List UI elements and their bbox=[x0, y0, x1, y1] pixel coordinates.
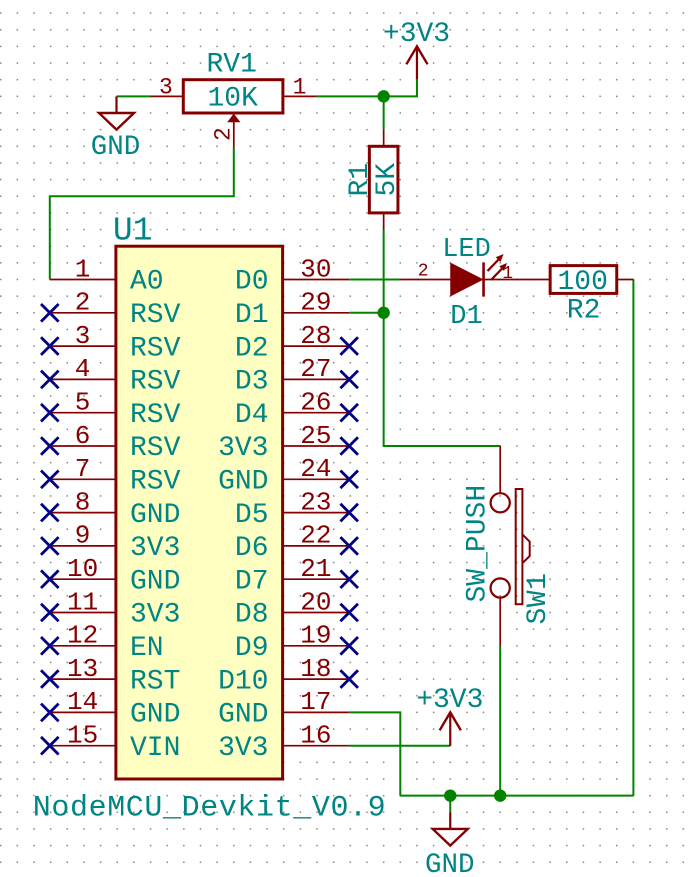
svg-text:3V3: 3V3 bbox=[218, 433, 268, 464]
LED D1 emission arrows bbox=[488, 257, 502, 272]
wire GND rail bbox=[400, 795, 633, 797]
RV1 wiper arrow bbox=[227, 114, 240, 123]
junction RV1-R1 node bbox=[377, 90, 389, 102]
no-connect pin 4 bbox=[41, 371, 59, 389]
svg-text:RSV: RSV bbox=[130, 433, 181, 464]
IC U1 body bbox=[116, 246, 283, 779]
svg-text:29: 29 bbox=[300, 288, 331, 318]
svg-text:27: 27 bbox=[300, 354, 331, 384]
svg-text:NodeMCU_Devkit_V0.9: NodeMCU_Devkit_V0.9 bbox=[33, 792, 386, 826]
pin 9 line bbox=[50, 545, 116, 547]
svg-text:1: 1 bbox=[75, 254, 91, 284]
svg-text:D8: D8 bbox=[235, 600, 269, 631]
switch SW1 button bump bbox=[522, 534, 529, 563]
wire rail to GND symbol bbox=[449, 796, 451, 813]
no-connect pin 10 bbox=[41, 570, 59, 588]
pin 6 line bbox=[50, 445, 116, 447]
no-connect pin 21 bbox=[340, 570, 358, 588]
wire RV1 pin3 to GND bbox=[117, 95, 151, 97]
svg-text:26: 26 bbox=[300, 388, 331, 418]
svg-text:4: 4 bbox=[75, 354, 91, 384]
no-connect pin 25 bbox=[340, 437, 358, 455]
svg-text:9: 9 bbox=[75, 521, 91, 551]
pin 17 line bbox=[283, 711, 350, 713]
switch SW1 bottom contact bbox=[491, 578, 510, 597]
svg-text:3V3: 3V3 bbox=[130, 533, 180, 564]
no-connect pin 19 bbox=[340, 637, 358, 655]
svg-text:D3: D3 bbox=[235, 367, 269, 398]
pin 18 line bbox=[283, 678, 350, 680]
wire R2 to rail bbox=[632, 280, 634, 796]
pin 8 line bbox=[50, 512, 116, 514]
pin 12 line bbox=[50, 645, 116, 647]
svg-text:3V3: 3V3 bbox=[130, 600, 180, 631]
svg-text:D4: D4 bbox=[235, 400, 269, 431]
svg-text:D1: D1 bbox=[450, 302, 482, 332]
svg-text:D1: D1 bbox=[235, 300, 269, 331]
LED D1 cathode pin bbox=[484, 279, 551, 281]
svg-text:19: 19 bbox=[300, 621, 331, 651]
svg-text:3: 3 bbox=[159, 75, 173, 101]
svg-text:30: 30 bbox=[300, 254, 331, 284]
pin 23 line bbox=[283, 512, 350, 514]
wire U1 pin16 to +3V3 bbox=[349, 745, 450, 747]
svg-text:10K: 10K bbox=[207, 84, 258, 115]
svg-text:D6: D6 bbox=[235, 533, 269, 564]
GND symbol top bbox=[115, 96, 117, 113]
wire SW1 to GND rail bbox=[499, 646, 501, 796]
no-connect pin 22 bbox=[340, 537, 358, 555]
svg-text:D9: D9 bbox=[235, 633, 269, 664]
svg-text:17: 17 bbox=[300, 687, 331, 717]
RV1 pin 1 line bbox=[283, 95, 317, 97]
pin 21 line bbox=[283, 578, 350, 580]
pin 19 line bbox=[283, 645, 350, 647]
wire R1 to SW1 bbox=[384, 230, 501, 446]
RV1 pin 3 line bbox=[151, 95, 184, 97]
svg-text:VIN: VIN bbox=[130, 733, 180, 764]
pin 5 line bbox=[50, 412, 116, 414]
pin 27 line bbox=[283, 378, 350, 380]
no-connect pin 11 bbox=[41, 604, 59, 622]
resistor R2 body bbox=[550, 266, 617, 294]
svg-text:GND: GND bbox=[130, 566, 180, 597]
switch SW1 top pin bbox=[499, 446, 501, 493]
pin 10 line bbox=[50, 578, 116, 580]
no-connect pin 27 bbox=[340, 371, 358, 389]
resistor R1 body bbox=[369, 146, 398, 213]
pin 14 line bbox=[50, 711, 116, 713]
svg-text:13: 13 bbox=[67, 654, 98, 684]
GND symbol bottom bbox=[449, 812, 451, 829]
no-connect pin 8 bbox=[41, 504, 59, 522]
svg-text:11: 11 bbox=[67, 587, 98, 617]
pin 1 line bbox=[50, 279, 116, 281]
pin 7 line bbox=[50, 478, 116, 480]
svg-text:RST: RST bbox=[130, 666, 180, 697]
svg-text:25: 25 bbox=[300, 421, 331, 451]
wire D1 pin29 bbox=[349, 312, 383, 314]
svg-text:+3V3: +3V3 bbox=[416, 685, 483, 716]
svg-text:8: 8 bbox=[75, 487, 91, 517]
wire junction to R1 bbox=[383, 96, 385, 129]
svg-text:RSV: RSV bbox=[130, 400, 181, 431]
svg-text:D2: D2 bbox=[235, 333, 269, 364]
no-connect pin 3 bbox=[41, 337, 59, 355]
no-connect pin 7 bbox=[41, 471, 59, 489]
R2 right pin bbox=[617, 279, 634, 281]
svg-text:14: 14 bbox=[67, 687, 98, 717]
svg-text:3: 3 bbox=[75, 321, 91, 351]
pin 24 line bbox=[283, 478, 350, 480]
pin 16 line bbox=[283, 745, 350, 747]
svg-text:RSV: RSV bbox=[130, 333, 181, 364]
svg-text:GND: GND bbox=[130, 700, 180, 731]
svg-text:RSV: RSV bbox=[130, 367, 181, 398]
switch SW1 bottom pin bbox=[499, 598, 501, 646]
no-connect pin 9 bbox=[41, 537, 59, 555]
svg-text:16: 16 bbox=[300, 721, 331, 751]
no-connect pin 2 bbox=[41, 304, 59, 322]
pin 13 line bbox=[50, 678, 116, 680]
svg-text:D5: D5 bbox=[235, 500, 269, 531]
svg-text:21: 21 bbox=[300, 554, 331, 584]
svg-text:6: 6 bbox=[75, 421, 91, 451]
svg-text:28: 28 bbox=[300, 321, 331, 351]
no-connect pin 5 bbox=[41, 404, 59, 422]
svg-text:GND: GND bbox=[130, 500, 180, 531]
svg-text:+3V3: +3V3 bbox=[383, 19, 450, 50]
svg-text:1: 1 bbox=[502, 264, 513, 284]
junction R1-D1-SW node bbox=[377, 307, 389, 319]
pin 4 line bbox=[50, 378, 116, 380]
pin 25 line bbox=[283, 445, 350, 447]
svg-text:A0: A0 bbox=[130, 267, 164, 298]
+3V3 symbol bottom bbox=[449, 712, 451, 745]
no-connect pin 20 bbox=[340, 604, 358, 622]
LED D1 cathode bar bbox=[482, 263, 485, 297]
+3V3 symbol top bbox=[416, 46, 418, 79]
svg-text:24: 24 bbox=[300, 454, 331, 484]
no-connect pin 13 bbox=[41, 670, 59, 688]
svg-text:EN: EN bbox=[130, 633, 164, 664]
svg-text:7: 7 bbox=[75, 454, 91, 484]
pin 26 line bbox=[283, 412, 350, 414]
junction rail SW1 bbox=[494, 789, 506, 801]
svg-text:18: 18 bbox=[300, 654, 331, 684]
svg-text:100: 100 bbox=[557, 267, 607, 298]
svg-text:SW_PUSH: SW_PUSH bbox=[463, 485, 494, 603]
wire RV1 wiper to U1 pin1 bbox=[50, 147, 234, 280]
potentiometer RV1 body bbox=[183, 80, 283, 113]
pin 28 line bbox=[283, 345, 350, 347]
svg-text:D10: D10 bbox=[218, 666, 268, 697]
svg-text:LED: LED bbox=[442, 235, 491, 265]
pin 15 line bbox=[50, 745, 116, 747]
wire D0 pin30 to LED bbox=[349, 279, 400, 281]
pin 22 line bbox=[283, 545, 350, 547]
svg-text:R2: R2 bbox=[567, 295, 601, 326]
svg-text:GND: GND bbox=[218, 467, 268, 498]
wire RV1 pin1 to +3V3 bbox=[316, 79, 417, 96]
svg-text:20: 20 bbox=[300, 587, 331, 617]
svg-text:GND: GND bbox=[425, 850, 475, 877]
svg-text:GND: GND bbox=[218, 700, 268, 731]
pin 3 line bbox=[50, 345, 116, 347]
pin 11 line bbox=[50, 612, 116, 614]
svg-text:SW1: SW1 bbox=[523, 573, 554, 625]
R1 top pin bbox=[383, 130, 385, 147]
no-connect pin 18 bbox=[340, 670, 358, 688]
pin 2 line bbox=[50, 312, 116, 314]
svg-text:2: 2 bbox=[211, 127, 237, 141]
svg-text:23: 23 bbox=[300, 487, 331, 517]
LED D1 anode pin bbox=[400, 279, 450, 281]
svg-text:U1: U1 bbox=[113, 213, 153, 250]
svg-text:22: 22 bbox=[300, 521, 331, 551]
LED D1 triangle bbox=[450, 263, 483, 297]
wire U1 pin17 to rail bbox=[349, 712, 400, 795]
no-connect pin 12 bbox=[41, 637, 59, 655]
svg-text:5: 5 bbox=[75, 388, 91, 418]
no-connect pin 6 bbox=[41, 437, 59, 455]
junction rail GND bbox=[444, 789, 456, 801]
svg-text:12: 12 bbox=[67, 621, 98, 651]
switch SW1 top contact bbox=[491, 493, 510, 512]
svg-text:2: 2 bbox=[418, 261, 429, 281]
no-connect pin 23 bbox=[340, 504, 358, 522]
svg-text:2: 2 bbox=[75, 288, 91, 318]
svg-text:GND: GND bbox=[91, 132, 141, 163]
no-connect pin 26 bbox=[340, 404, 358, 422]
svg-text:5K: 5K bbox=[372, 163, 403, 197]
pin 30 line bbox=[283, 279, 350, 281]
no-connect pin 14 bbox=[41, 704, 59, 722]
svg-text:RV1: RV1 bbox=[206, 50, 256, 81]
svg-text:RSV: RSV bbox=[130, 467, 181, 498]
svg-text:3V3: 3V3 bbox=[218, 733, 268, 764]
no-connect pin 24 bbox=[340, 471, 358, 489]
svg-text:15: 15 bbox=[67, 721, 98, 751]
svg-text:10: 10 bbox=[67, 554, 98, 584]
R1 bottom pin bbox=[383, 213, 385, 230]
switch SW1 actuator bar bbox=[516, 489, 523, 604]
no-connect pin 15 bbox=[41, 737, 59, 755]
pin 29 line bbox=[283, 312, 350, 314]
svg-text:1: 1 bbox=[293, 75, 307, 101]
pin 20 line bbox=[283, 612, 350, 614]
svg-text:D7: D7 bbox=[235, 566, 269, 597]
no-connect pin 28 bbox=[340, 337, 358, 355]
svg-text:RSV: RSV bbox=[130, 300, 181, 331]
svg-text:D0: D0 bbox=[235, 267, 269, 298]
